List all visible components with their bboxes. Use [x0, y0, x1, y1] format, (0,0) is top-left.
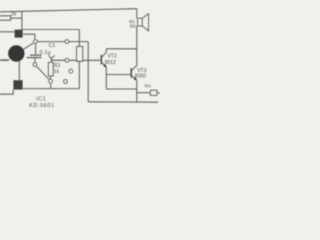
paper background — [0, 0, 160, 110]
wire: VT2 emitter line to VT3 emitter line — [106, 88, 137, 90]
switch terminal at C1 bottom — [33, 63, 37, 67]
svg-text:R4: R4 — [145, 83, 151, 88]
wire: vertical x=79.3 from bias line down through R2 to bottom rail — [78, 30, 80, 89]
svg-text:IC1: IC1 — [36, 97, 46, 103]
wire: VT2 emitter line to VT3 base — [106, 74, 130, 76]
svg-text:C1: C1 — [49, 43, 56, 49]
wire: speaker feed / VT2-VT3 collector vertical — [136, 9, 138, 19]
capacitor C1 top lead from node A — [35, 44, 37, 55]
wire: junction to resistor R4 — [137, 92, 151, 94]
node terminal circle on y=41.6 net — [65, 40, 69, 44]
wire: VT2 collector to speaker line — [106, 48, 137, 50]
svg-text:8050: 8050 — [135, 74, 146, 80]
svg-text:2k: 2k — [11, 12, 17, 18]
switch terminal at R3 bottom — [49, 79, 53, 83]
transistor VT2 emitter arrowhead — [103, 64, 106, 68]
pad square 1 — [15, 30, 23, 38]
svg-text:0.1µ: 0.1µ — [40, 50, 51, 56]
wire: left edge to pad square 1 — [0, 31, 15, 33]
resistor R3 bottom lead to terminal — [50, 76, 52, 79]
wire: vertical below speaker to VT3 collector — [136, 26, 138, 65]
wire: top supply rail — [0, 9, 137, 12]
wire: middle net y=60.3 to VT2 base — [52, 59, 101, 61]
wire: diagonal microphone to node A — [23, 43, 34, 50]
transistor VT2 collector diagonal — [102, 49, 107, 57]
wire: main horizontal net y=41.6 — [38, 41, 89, 43]
svg-text:9013: 9013 — [105, 60, 116, 66]
wire: V junction above R3 — [49, 55, 55, 59]
wire: R3 terminal to bottom rail — [50, 83, 52, 88]
transistor VT3 base bar — [131, 68, 133, 77]
speaker B1 frame — [138, 18, 143, 26]
node terminal circle on y=60.3 net — [65, 58, 69, 62]
resistor R1 2k (left edge, cut) — [0, 16, 11, 20]
wire: VT2 emitter vertical down — [105, 67, 107, 89]
wire: microphone left lead from edge — [0, 59, 9, 61]
wire: V vertex to R3 top — [50, 59, 52, 63]
wire: bottom rail right section — [88, 101, 158, 103]
svg-text:VT2: VT2 — [108, 54, 117, 60]
pad square 2 — [13, 80, 22, 89]
wire: pad square 1 to node A jog — [23, 34, 35, 39]
speaker B1 cone — [142, 14, 148, 31]
transistor VT3 emitter diagonal — [132, 76, 137, 81]
svg-text:8Ω: 8Ω — [130, 23, 136, 28]
transistor VT3 emitter arrowhead — [134, 77, 137, 81]
capacitor C1 bottom lead to switch terminal — [34, 58, 36, 63]
wire: vertical from rail down to pad square 1 — [21, 11, 23, 29]
wire: R1 to left vertical — [11, 17, 22, 19]
transistor VT3 collector diagonal — [132, 65, 137, 70]
svg-text:1k: 1k — [54, 69, 60, 75]
resistor R3 1k body — [48, 63, 53, 76]
node A terminal circle — [34, 40, 38, 44]
wire: microphone bottom lead to pad square 2 — [18, 61, 20, 81]
resistor R2 (unlabeled, on x=79.3) — [77, 47, 83, 62]
capacitor C1 plates — [30, 54, 42, 56]
unconnected terminal circle 2 — [64, 80, 68, 84]
resistor R4 body (right edge) — [150, 90, 157, 95]
wire: bottom rail left section — [23, 88, 80, 90]
wire: horizontal bias line y=29.5 — [22, 29, 79, 31]
microphone B (dark disc) — [8, 45, 24, 61]
unconnected terminal circle — [69, 69, 73, 73]
wire: R4 right stub (cut by edge) — [157, 92, 160, 94]
transistor VT2 emitter diagonal — [102, 63, 107, 68]
switch arm from C1 terminal to R3 terminal — [36, 66, 49, 80]
wire: VT3 emitter vertical to bottom rail — [136, 80, 138, 102]
wire: pad square 2 bottom-left exit to left edge — [0, 90, 13, 95]
svg-text:KD-5601: KD-5601 — [29, 103, 54, 109]
transistor VT2 base bar — [101, 55, 103, 64]
wire: vertical x=88.2 down to bottom rail — [87, 42, 89, 102]
